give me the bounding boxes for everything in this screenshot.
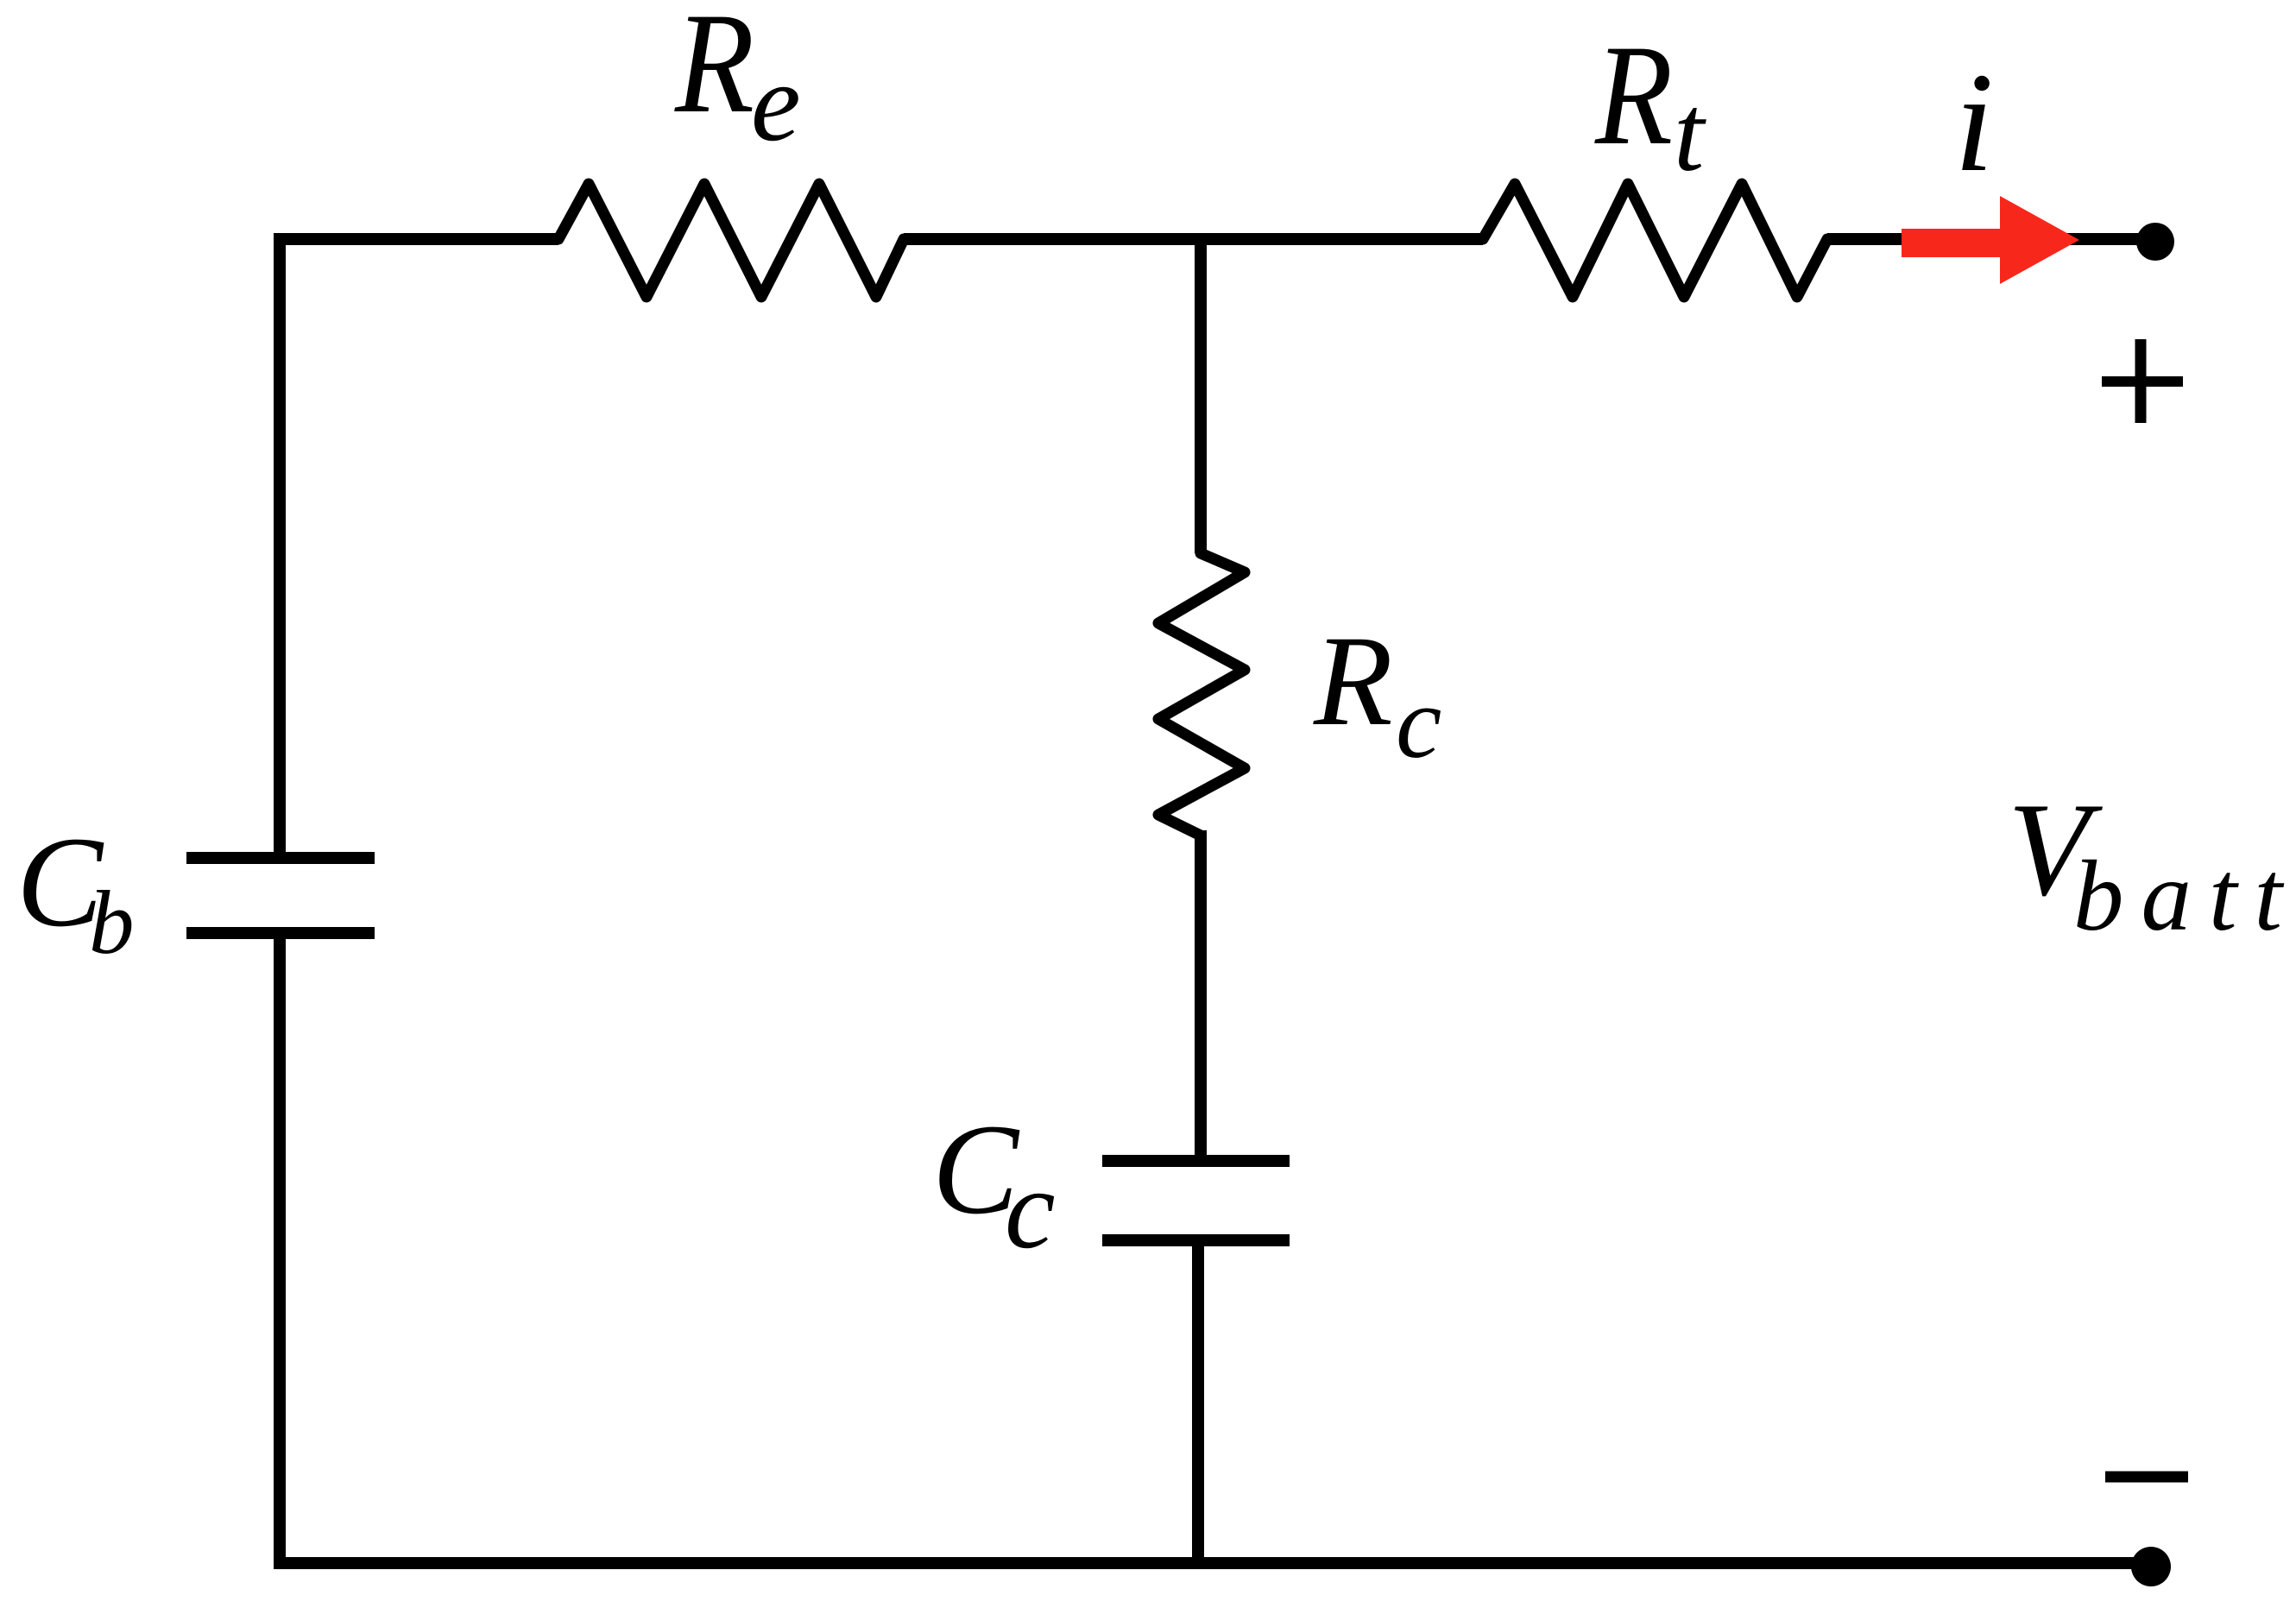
svg-text:b: b (89, 872, 135, 973)
svg-text:c: c (1005, 1145, 1056, 1272)
svg-text:e: e (751, 41, 801, 165)
resistor R_e (552, 184, 911, 297)
wire: lower-left rail and bottom rail (280, 933, 2151, 1563)
svg-text:t: t (1674, 73, 1706, 194)
wire: between C_c and bottom rail (1192, 1240, 1204, 1563)
wire: top rail between R_e and R_t (904, 233, 1483, 245)
node: positive terminal dot (2136, 223, 2174, 261)
capacitor C_b top plate (186, 852, 375, 864)
wire: middle branch drop from top rail (1195, 239, 1207, 553)
svg-text:batt: batt (2073, 841, 2296, 952)
resistor R_t (1476, 184, 1834, 297)
current arrow i (shaft) (1902, 229, 2000, 257)
wire: between R_c and C_c (1195, 830, 1207, 1161)
wire: top-left corner and upper-left rail (280, 239, 558, 852)
capacitor C_c top plate (1102, 1155, 1290, 1167)
svg-text:R: R (1313, 609, 1393, 753)
plus sign (2102, 376, 2183, 387)
node: negative terminal dot (2131, 1547, 2171, 1586)
capacitor C_c bottom plate (1102, 1234, 1290, 1246)
svg-text:R: R (674, 0, 754, 143)
wire: top rail right of R_t (1827, 233, 2155, 245)
capacitor C_b bottom plate (186, 927, 375, 939)
resistor R_c (1158, 546, 1245, 842)
current arrow i (head) (2000, 196, 2079, 284)
svg-text:R: R (1594, 16, 1673, 175)
minus sign (2105, 1472, 2188, 1483)
svg-text:c: c (1396, 665, 1441, 779)
svg-text:i: i (1954, 43, 1994, 201)
